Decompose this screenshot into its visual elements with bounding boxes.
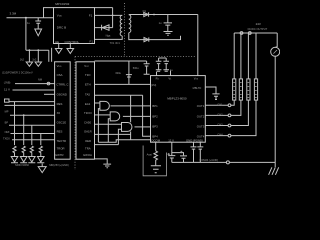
wire OUT2 to R pack	[231, 100, 241, 115]
wire IC2 upper feedback	[95, 83, 151, 85]
ground arrow U1 gnd1	[55, 49, 62, 54]
wire stub U1 gnd1	[58, 44, 60, 49]
svg-text:OSA: OSA	[57, 73, 63, 77]
logic gate G3	[122, 123, 132, 132]
svg-text:330u: 330u	[115, 71, 121, 75]
wire row 4	[5, 104, 55, 106]
svg-text:OSGND: OSGND	[57, 93, 67, 97]
diode D9	[28, 157, 35, 163]
svg-text:BP1: BP1	[152, 104, 158, 108]
capacitor C8	[168, 156, 175, 163]
diode D8	[20, 157, 27, 163]
wire cap link	[172, 153, 184, 156]
svg-text:OUT1: OUT1	[197, 104, 205, 108]
svg-text:F1: F1	[90, 40, 94, 44]
wire secondary top rail	[129, 14, 198, 16]
svg-text:DRC B: DRC B	[57, 25, 66, 29]
svg-text:EA1: EA1	[85, 102, 91, 106]
resistor RP4	[254, 79, 257, 100]
capacitor C12	[212, 94, 219, 100]
ground under C2	[164, 32, 173, 36]
svg-text:MP: MP	[5, 110, 9, 114]
svg-text:CH2: CH2	[217, 113, 223, 117]
isolation dashed vertical	[74, 57, 76, 171]
wire drain row	[95, 27, 113, 29]
svg-text:GND (PGND): GND (PGND)	[186, 139, 203, 143]
wire top rail over U1	[95, 7, 113, 9]
wire drain to primary bottom	[95, 36, 123, 40]
svg-text:(110)POWER 2 DC100mV: (110)POWER 2 DC100mV	[2, 70, 33, 74]
wire bus drop 2	[23, 115, 25, 145]
wire 24V rail	[234, 32, 277, 34]
wire MP	[10, 114, 55, 116]
node terminal T2	[248, 32, 251, 35]
wire OUT2	[205, 114, 228, 116]
resistor RP2	[239, 79, 242, 100]
svg-text:500u: 500u	[133, 66, 139, 70]
svg-text:T3OO: T3OO	[84, 111, 92, 115]
svg-text:(JNB): (JNB)	[4, 80, 11, 84]
transformer T1 primary winding	[120, 15, 122, 36]
logic gate G1	[100, 101, 109, 110]
wire TXD0	[12, 139, 55, 141]
wire X1	[9, 101, 55, 103]
node terminal circle	[47, 82, 50, 85]
svg-text:NM: NM	[38, 77, 42, 81]
resistor R7	[39, 146, 42, 157]
svg-text:Nga: Nga	[106, 33, 111, 37]
wire bus drop 1	[14, 102, 16, 145]
wire OUT3	[205, 125, 228, 127]
svg-text:GWOA: GWOA	[83, 153, 92, 157]
svg-text:MBPLZ3-8050: MBPLZ3-8050	[167, 97, 187, 101]
svg-text:BP3: BP3	[152, 124, 158, 128]
svg-text:BP: BP	[5, 120, 9, 124]
wire common low rail	[98, 140, 150, 143]
resistor R3 lead	[37, 50, 39, 62]
node CH4 terminal	[228, 134, 231, 137]
node bias dot2	[37, 49, 39, 51]
wire OUT3 to R pack	[231, 100, 249, 125]
capacitor C9 plus	[180, 151, 183, 153]
capacitor C7	[163, 58, 169, 71]
wire V1 pin stub	[170, 71, 172, 76]
node terminal T1	[240, 32, 243, 35]
IC3 top pin labels	[156, 76, 199, 80]
diode D4	[144, 37, 149, 41]
transformer T1 core (dashed)	[124, 3, 126, 57]
wire down from J1	[25, 18, 27, 51]
wire secondary output drop	[197, 15, 199, 76]
IC3 right pin labels	[197, 104, 205, 138]
transformer T1 secondary winding	[129, 15, 131, 33]
capacitor C8 plus	[168, 153, 171, 155]
wire RP4 top	[255, 33, 257, 79]
svg-text:OSC1E: OSC1E	[57, 121, 67, 125]
capacitor C10	[191, 142, 197, 162]
ground arrow big	[38, 164, 46, 173]
svg-text:{1M}: {1M}	[151, 83, 156, 87]
op-amp IC2 body	[76, 62, 95, 159]
svg-text:1k2: 1k2	[20, 58, 25, 62]
svg-text:TROR: TROR	[57, 147, 65, 151]
wire bus drop 3	[31, 125, 33, 145]
svg-text:CH4: CH4	[217, 133, 223, 137]
wire stub U1 gnd2	[69, 44, 71, 49]
resistor R8 lead	[155, 142, 157, 151]
node CH3 terminal	[228, 124, 231, 127]
svg-text:F1: F1	[89, 13, 93, 17]
svg-text:CA50: CA50	[84, 121, 91, 125]
wire IC2 out row1	[95, 102, 100, 104]
isolation dashed horizontal	[75, 56, 196, 58]
svg-text:CONTROL: CONTROL	[65, 40, 80, 44]
diode D7	[11, 157, 18, 163]
meter M1	[271, 47, 280, 56]
wire OUT1	[205, 104, 228, 106]
wire top link	[95, 60, 147, 62]
svg-text:D1: D1	[143, 9, 147, 13]
chassis ground stub	[274, 162, 276, 167]
IC2 pin labels	[83, 64, 92, 157]
wire OUT1 to R pack	[231, 100, 234, 105]
wire second drop to IC1	[51, 48, 53, 62]
svg-text:CH3: CH3	[217, 123, 223, 127]
wire NMI	[11, 133, 55, 135]
wire G2 output	[123, 115, 151, 117]
wire 12V drop	[171, 142, 173, 155]
capacitor C2	[164, 15, 172, 32]
svg-text:MBLTD: MBLTD	[193, 86, 202, 90]
wire FB to primary top	[95, 14, 123, 16]
wire RP3 top	[247, 33, 249, 79]
svg-text:OUT3: OUT3	[197, 124, 205, 128]
capacitor C9	[180, 156, 187, 163]
wire clamp vertical	[112, 8, 114, 28]
wire IC2 mid row	[95, 94, 143, 96]
capacitor C4	[126, 75, 132, 77]
svg-text:CTRRL C: CTRRL C	[56, 83, 68, 87]
svg-text:OA1R: OA1R	[84, 130, 92, 134]
crystal X1	[5, 99, 10, 102]
wire OUT4	[205, 135, 228, 137]
node FB junction	[112, 15, 114, 17]
wire RP1 top	[233, 33, 235, 79]
wire bias rail	[26, 49, 49, 51]
node bias dot1	[29, 49, 31, 51]
diode D3	[144, 12, 149, 16]
wire BP	[9, 124, 55, 126]
capacitor C6	[156, 58, 162, 71]
svg-text:RES: RES	[57, 102, 63, 106]
svg-text:24V: 24V	[256, 22, 261, 26]
svg-text:OER: OER	[85, 139, 91, 143]
svg-text:DC/DC OUTPUT: DC/DC OUTPUT	[248, 27, 268, 31]
wire rail to meter	[275, 33, 277, 48]
IC3 left pin labels	[152, 104, 158, 138]
diode D5 arrow	[26, 62, 32, 66]
chassis ground slashes	[269, 167, 279, 175]
ground arrow U1 gnd2	[67, 49, 74, 54]
svg-text:NR60 NR60: NR60 NR60	[15, 163, 30, 167]
wire cap rail	[159, 57, 167, 59]
wire JNB	[15, 83, 55, 85]
resistor R6	[30, 146, 33, 157]
svg-text:T3O: T3O	[85, 73, 91, 77]
svg-text:DCOM: DCOM	[152, 139, 161, 143]
node secondary junction	[153, 14, 155, 16]
wire COM rail	[172, 161, 227, 163]
svg-text:12 V: 12 V	[168, 139, 174, 143]
ground under R8	[151, 166, 161, 173]
wire mid drop A	[130, 95, 132, 140]
IC1 pin labels	[55, 64, 68, 157]
capacitor C11	[197, 142, 203, 162]
wire G3 second input branch	[118, 129, 121, 144]
wire bias drop to IC1	[48, 50, 50, 62]
resistor R4	[13, 146, 16, 157]
svg-text:X0: X0	[57, 111, 61, 115]
wire R1 pin stub	[156, 72, 158, 76]
svg-text:MPC0154I: MPC0154I	[55, 2, 69, 6]
svg-text:BP2: BP2	[152, 114, 158, 118]
svg-text:MR(25V)+(GND): MR(25V)+(GND)	[49, 163, 69, 167]
wire meter down	[274, 56, 276, 162]
svg-text:TEOTR: TEOTR	[57, 139, 66, 143]
wire 11V	[13, 89, 55, 91]
wire RP2 top	[240, 33, 242, 79]
wire bus drop 4	[40, 134, 42, 146]
wire G2 second input branch	[108, 119, 110, 143]
logic gate G2	[110, 112, 120, 121]
wire OUT4 to R pack	[231, 100, 256, 136]
svg-text:TA5: TA5	[85, 93, 90, 97]
wire G1 output	[111, 105, 151, 107]
resistor RP1	[233, 79, 236, 100]
resistor R5	[22, 146, 25, 157]
svg-text:GWTR: GWTR	[55, 153, 64, 157]
resistor RP3	[247, 79, 250, 100]
op-amp IC1 body	[55, 62, 71, 159]
resistor R2 lead	[28, 50, 30, 62]
svg-text:RES: RES	[57, 130, 63, 134]
svg-text:NMI: NMI	[5, 130, 10, 134]
svg-text:CH1: CH1	[217, 102, 223, 106]
wire G3 output	[135, 126, 151, 128]
ground IC2	[103, 164, 111, 168]
svg-text:TX1 3C1: TX1 3C1	[110, 41, 121, 45]
svg-text:ETH: ETH	[85, 83, 91, 87]
wire input rail	[7, 17, 54, 19]
wire IC2 bottom gnd	[95, 159, 108, 164]
svg-text:TXD0: TXD0	[3, 136, 10, 140]
svg-text:1k2: 1k2	[32, 58, 37, 62]
wire G1 second input branch	[98, 109, 100, 143]
op-amp IC3 body	[151, 76, 206, 143]
node CH2 terminal	[228, 114, 231, 117]
svg-text:HE: HE	[55, 40, 59, 44]
node junction J1	[25, 17, 27, 19]
node CH1 terminal	[228, 104, 231, 107]
svg-text:11 V: 11 V	[4, 87, 10, 91]
IC3 bottom pin labels	[152, 139, 204, 143]
svg-text:Asat: Asat	[147, 153, 152, 157]
diode D2 (clamp)	[102, 25, 109, 31]
wire MBLTD	[205, 87, 216, 94]
node COM terminal	[226, 161, 229, 164]
wire riser to top rail	[44, 8, 54, 18]
svg-text:TRA: TRA	[85, 147, 91, 151]
wire IC2 out row3	[95, 123, 122, 125]
wire short mid	[44, 93, 55, 95]
enclosure box around R8 ground	[143, 146, 166, 176]
diode D10	[37, 157, 44, 163]
ground arrow under C1	[35, 29, 42, 36]
diode D6 arrow	[35, 62, 41, 66]
wire mid drop B	[143, 95, 151, 136]
wire secondary bottom rail	[129, 33, 181, 40]
svg-text:COM24 (+GND): COM24 (+GND)	[199, 158, 218, 162]
resistor R8	[154, 151, 158, 166]
wire COM to meter	[229, 161, 275, 163]
capacitor C5 (500u)	[144, 61, 150, 74]
wire IC2 out row4	[95, 133, 131, 135]
svg-text:OUT2: OUT2	[197, 114, 205, 118]
node junction MP	[23, 114, 25, 116]
wire feedback riser	[128, 61, 130, 84]
op-amp U1 body	[54, 8, 95, 44]
svg-text:3.3M: 3.3M	[10, 12, 17, 16]
wire IC2 out row5	[95, 144, 119, 146]
capacitor C1	[35, 18, 41, 29]
wire IC2 out row2	[95, 114, 111, 116]
